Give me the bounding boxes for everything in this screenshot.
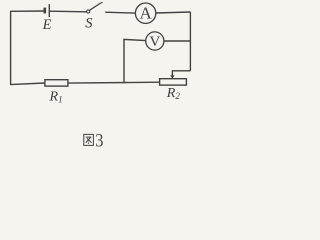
svg-text:A: A (139, 4, 152, 23)
svg-text:R2: R2 (166, 86, 181, 101)
battery E (45, 4, 50, 17)
switch S (87, 2, 103, 13)
caption figure 3 : hanzi TU drawn as strokes (84, 134, 94, 145)
svg-text:E: E (42, 17, 52, 33)
svg-text:S: S (85, 15, 93, 31)
rheostat arrow head (170, 75, 174, 78)
ammeter A circle (135, 3, 155, 23)
wire bottom left (corner to R1) (10, 83, 45, 85)
wire switch to ammeter (105, 11, 135, 14)
wire bottom middle (R1 to R2) (68, 81, 160, 84)
wire top left (corner to battery) (10, 10, 44, 12)
wire voltmeter right to right vertical (164, 40, 191, 42)
svg-text:R1: R1 (49, 90, 63, 105)
wire left vertical (10, 11, 12, 84)
resistor R1 box (45, 80, 68, 86)
svg-text:V: V (149, 33, 160, 50)
wire ammeter to top right corner (156, 12, 191, 13)
voltmeter V circle (146, 32, 164, 50)
wire voltmeter left branch (124, 39, 146, 83)
wire battery to switch (50, 10, 86, 13)
rheostat R2 box (160, 79, 187, 85)
wire right vertical upper (189, 12, 191, 71)
wire rheostat slider feed (172, 71, 190, 76)
svg-text:3: 3 (95, 132, 103, 152)
